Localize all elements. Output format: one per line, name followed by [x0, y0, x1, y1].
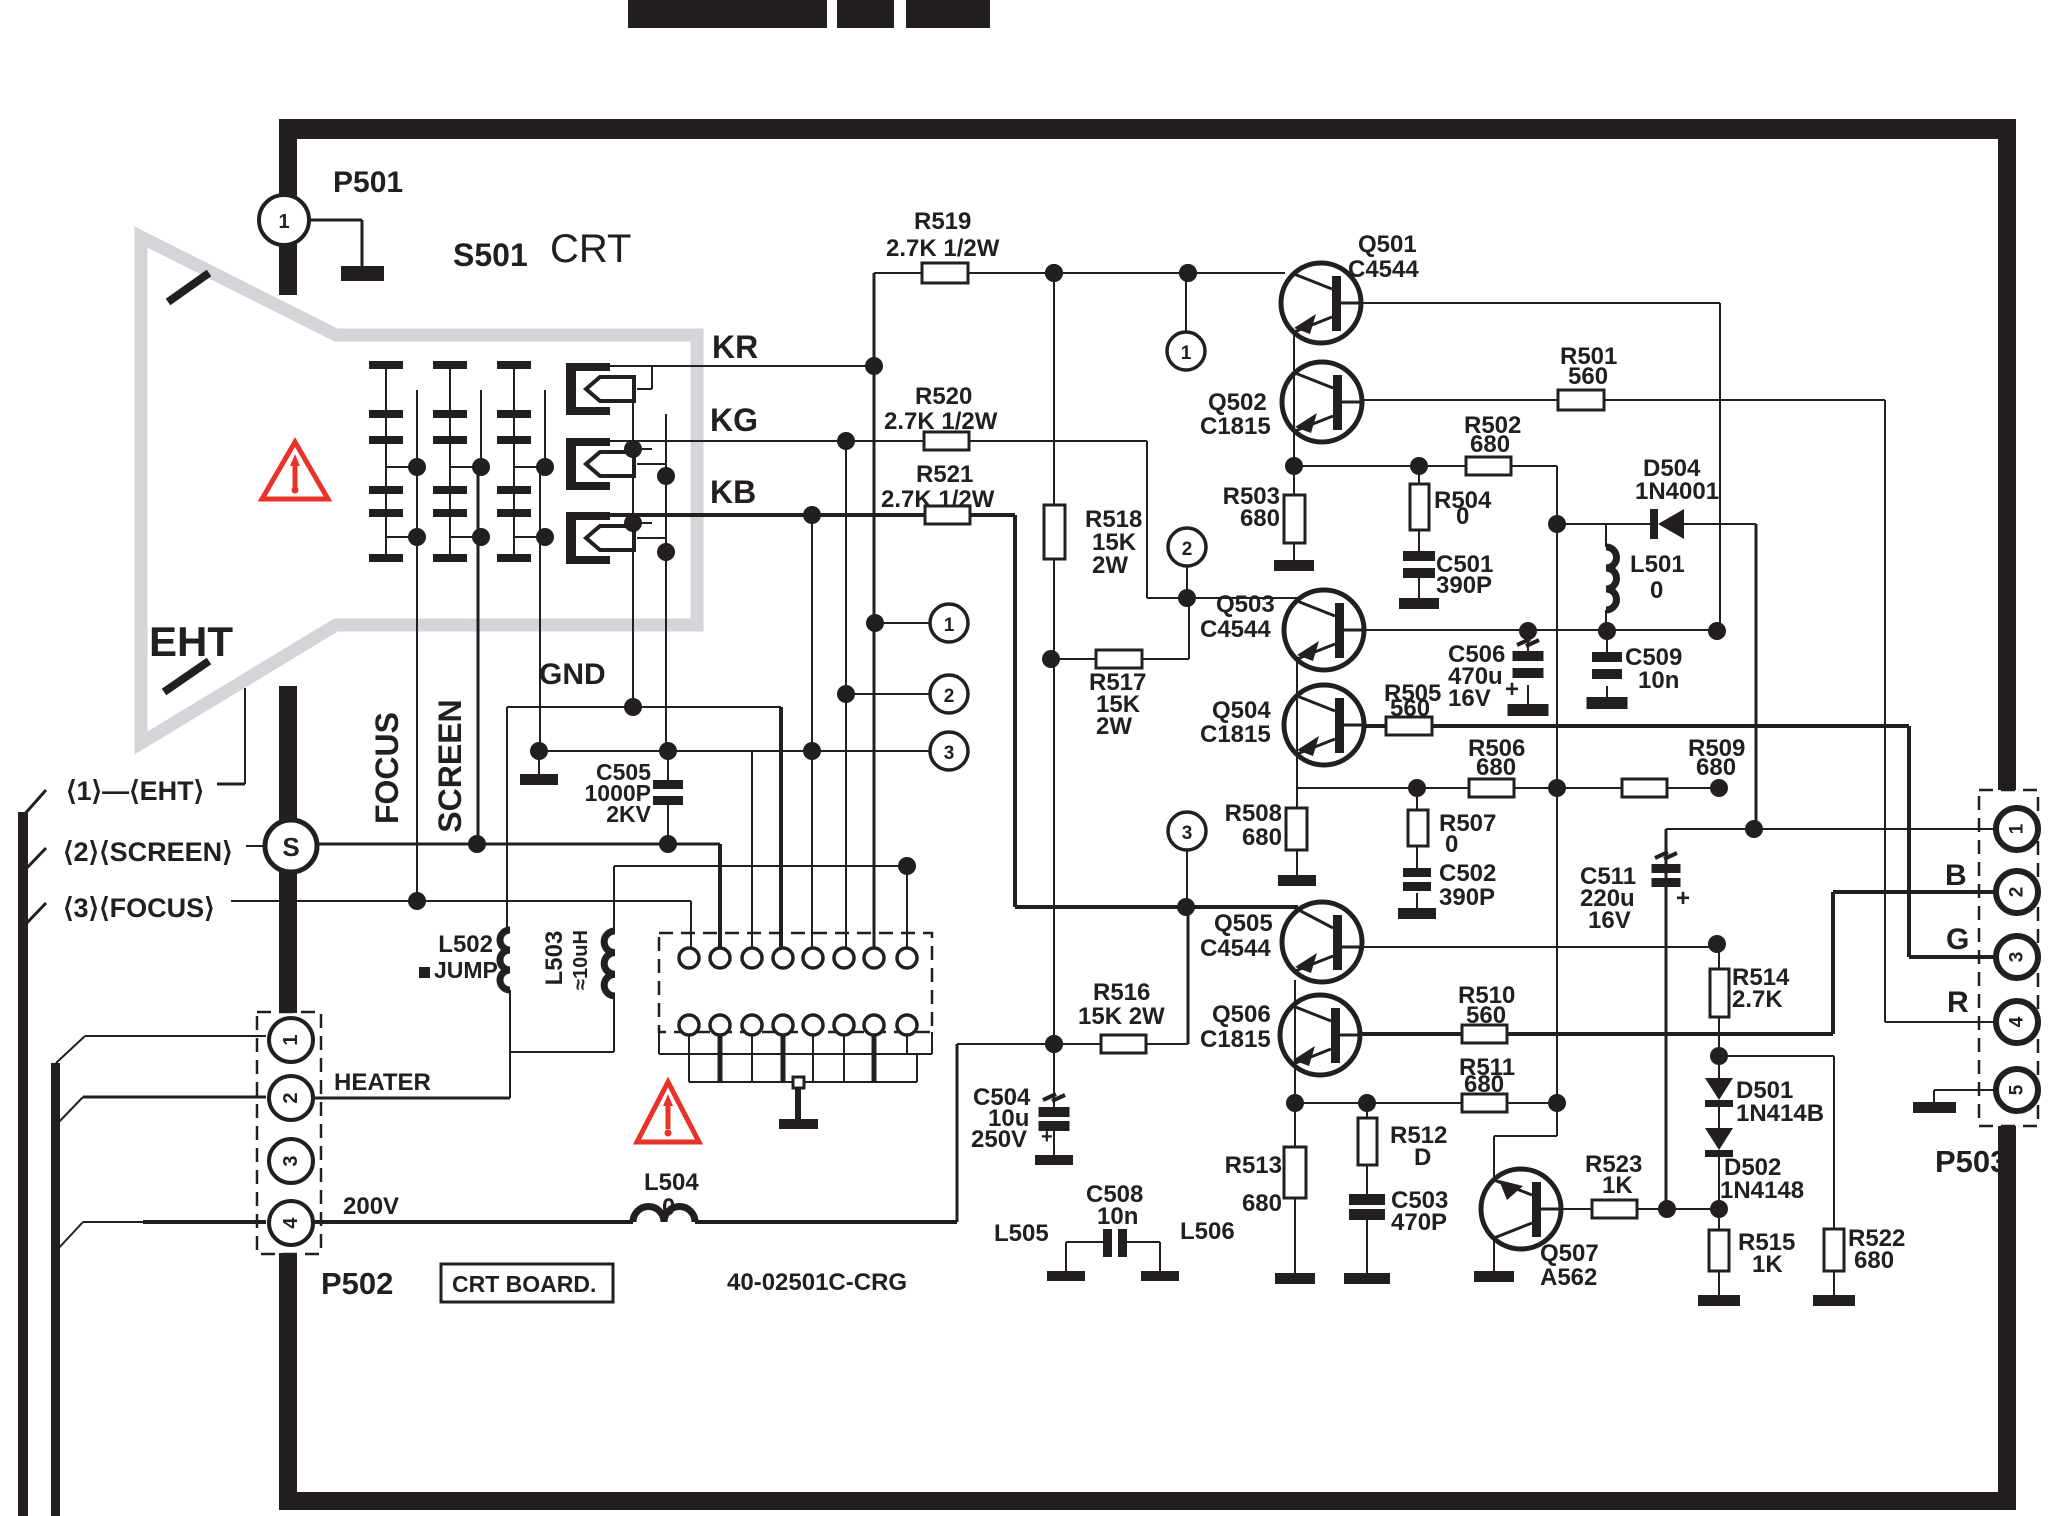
svg-text:2: 2: [1182, 539, 1193, 560]
svg-text:2.7K: 2.7K: [1732, 986, 1783, 1013]
svg-text:1N414B: 1N414B: [1736, 1100, 1824, 1127]
svg-text:R513: R513: [1225, 1152, 1282, 1179]
svg-text:C1815: C1815: [1200, 1026, 1271, 1053]
svg-text:560: 560: [1568, 363, 1608, 390]
svg-text:0: 0: [1456, 503, 1469, 530]
svg-text:GND: GND: [539, 658, 606, 691]
svg-text:560: 560: [1466, 1002, 1506, 1029]
svg-text:P502: P502: [321, 1266, 393, 1301]
svg-text:C1815: C1815: [1200, 721, 1271, 748]
svg-text:2: 2: [280, 1092, 302, 1103]
svg-text:⟨2⟩⟨SCREEN⟩: ⟨2⟩⟨SCREEN⟩: [63, 837, 233, 867]
svg-text:Q501: Q501: [1358, 231, 1417, 258]
svg-text:2.7K 1/2W: 2.7K 1/2W: [886, 235, 1000, 262]
svg-text:EHT: EHT: [149, 618, 233, 665]
svg-text:C1815: C1815: [1200, 413, 1271, 440]
svg-text:470P: 470P: [1391, 1209, 1447, 1236]
svg-text:L501: L501: [1630, 551, 1685, 578]
svg-text:L504: L504: [644, 1169, 699, 1196]
svg-text:⟨3⟩⟨FOCUS⟩: ⟨3⟩⟨FOCUS⟩: [63, 893, 215, 923]
svg-text:5: 5: [2007, 1084, 2028, 1095]
svg-text:680: 680: [1476, 754, 1516, 781]
svg-text:KG: KG: [710, 402, 758, 438]
svg-text:1: 1: [2007, 823, 2028, 834]
svg-text:15K 2W: 15K 2W: [1078, 1003, 1165, 1030]
svg-text:S501: S501: [453, 237, 528, 273]
svg-text:Q504: Q504: [1212, 697, 1271, 724]
svg-text:L505: L505: [994, 1220, 1049, 1247]
svg-text:2KV: 2KV: [606, 801, 651, 827]
svg-text:2: 2: [944, 686, 955, 707]
svg-text:4: 4: [280, 1217, 302, 1229]
svg-text:1N4148: 1N4148: [1720, 1177, 1804, 1204]
svg-text:1N4001: 1N4001: [1635, 478, 1719, 505]
svg-text:680: 680: [1854, 1247, 1894, 1274]
svg-text:200V: 200V: [343, 1193, 399, 1220]
svg-text:CRT BOARD.: CRT BOARD.: [452, 1271, 596, 1297]
svg-text:⟨1⟩—⟨EHT⟩: ⟨1⟩—⟨EHT⟩: [66, 776, 204, 806]
svg-text:Q502: Q502: [1208, 389, 1267, 416]
svg-text:FOCUS: FOCUS: [369, 712, 405, 824]
svg-text:2W: 2W: [1092, 552, 1128, 579]
svg-text:S: S: [282, 832, 299, 862]
svg-text:1: 1: [278, 211, 289, 233]
svg-text:3: 3: [944, 743, 955, 764]
svg-text:1: 1: [280, 1034, 302, 1045]
svg-text:0: 0: [662, 1194, 675, 1221]
svg-text:1: 1: [944, 615, 955, 636]
svg-text:R508: R508: [1225, 800, 1282, 827]
svg-text:680: 680: [1470, 431, 1510, 458]
svg-text:+: +: [1676, 885, 1690, 912]
svg-text:680: 680: [1240, 505, 1280, 532]
svg-text:L506: L506: [1180, 1218, 1235, 1245]
svg-text:680: 680: [1464, 1071, 1504, 1098]
svg-text:16V: 16V: [1588, 907, 1631, 934]
svg-text:Q507: Q507: [1540, 1240, 1599, 1267]
svg-text:0: 0: [1650, 577, 1663, 604]
svg-text:R520: R520: [915, 383, 972, 410]
svg-text:390P: 390P: [1436, 572, 1492, 599]
svg-text:3: 3: [1182, 823, 1193, 844]
svg-text:P501: P501: [333, 166, 403, 199]
svg-text:680: 680: [1242, 1190, 1282, 1217]
svg-text:HEATER: HEATER: [334, 1069, 431, 1096]
svg-text:1K: 1K: [1602, 1172, 1633, 1199]
svg-text:≈10uH: ≈10uH: [570, 930, 592, 990]
svg-text:D: D: [1414, 1144, 1431, 1171]
svg-text:+: +: [1505, 676, 1519, 703]
svg-text:C4544: C4544: [1200, 935, 1271, 962]
svg-text:C4544: C4544: [1348, 256, 1419, 283]
svg-text:KR: KR: [712, 329, 758, 365]
svg-text:680: 680: [1242, 824, 1282, 851]
svg-text:2W: 2W: [1096, 713, 1132, 740]
svg-text:+: +: [1041, 1126, 1053, 1148]
svg-text:560: 560: [1390, 695, 1430, 722]
svg-text:1K: 1K: [1752, 1251, 1783, 1278]
svg-text:L503: L503: [541, 931, 568, 986]
svg-text:SCREEN: SCREEN: [432, 699, 468, 832]
svg-text:B: B: [1945, 859, 1967, 892]
svg-text:P503: P503: [1935, 1144, 2007, 1179]
svg-text:C502: C502: [1439, 860, 1496, 887]
svg-text:3: 3: [2007, 952, 2028, 963]
svg-text:KB: KB: [710, 474, 756, 510]
svg-text:C4544: C4544: [1200, 616, 1271, 643]
svg-text:1: 1: [1181, 343, 1192, 364]
svg-text:R: R: [1947, 986, 1969, 1019]
svg-text:G: G: [1946, 923, 1969, 956]
svg-text:0: 0: [1445, 831, 1458, 858]
svg-text:JUMP: JUMP: [434, 957, 498, 983]
svg-text:10n: 10n: [1097, 1203, 1138, 1230]
svg-text:R521: R521: [916, 461, 973, 488]
svg-text:10n: 10n: [1638, 667, 1679, 694]
svg-text:16V: 16V: [1448, 685, 1491, 712]
svg-text:2: 2: [2007, 887, 2028, 898]
svg-text:Q503: Q503: [1216, 591, 1275, 618]
svg-text:R519: R519: [914, 208, 971, 235]
svg-text:390P: 390P: [1439, 884, 1495, 911]
svg-text:A562: A562: [1540, 1264, 1597, 1291]
svg-text:Q506: Q506: [1212, 1001, 1271, 1028]
svg-text:40-02501C-CRG: 40-02501C-CRG: [727, 1269, 907, 1296]
svg-text:Q505: Q505: [1214, 910, 1273, 937]
svg-text:680: 680: [1696, 754, 1736, 781]
svg-text:R516: R516: [1093, 979, 1150, 1006]
svg-text:CRT: CRT: [550, 227, 631, 271]
svg-text:4: 4: [2007, 1016, 2028, 1027]
svg-text:3: 3: [280, 1155, 302, 1166]
svg-text:250V: 250V: [971, 1126, 1027, 1153]
svg-text:L502: L502: [438, 931, 493, 958]
